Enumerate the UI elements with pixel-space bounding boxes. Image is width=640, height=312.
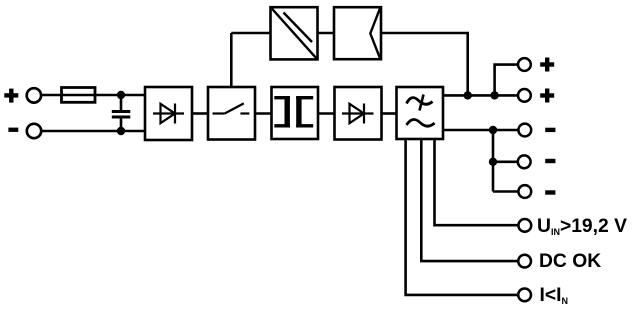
- fuse F1: [62, 88, 96, 103]
- label - input: [8, 128, 18, 132]
- wire minus vertical branch: [492, 130, 495, 192]
- label minus 2: [545, 159, 555, 163]
- rectifier diode box D2: [335, 87, 382, 140]
- wire D1 to switch: [192, 112, 208, 115]
- wire filter to minus terminals: [443, 129, 518, 132]
- wire fuse to rectifier box: [95, 94, 145, 97]
- terminal output plus 2: [518, 89, 531, 102]
- transformer T1: [272, 87, 319, 139]
- wire converter to pwm box: [318, 32, 335, 35]
- switch S1: [208, 87, 255, 140]
- wire input minus to rectifier box: [42, 130, 145, 133]
- terminal signal current limit: [518, 289, 531, 302]
- terminal output minus 1: [518, 124, 531, 137]
- wire to minus terminal 2: [493, 161, 518, 164]
- input protection diode box D1: [145, 87, 192, 140]
- label minus 1: [545, 128, 555, 132]
- svg-text:UIN>19,2 V: UIN>19,2 V: [537, 216, 627, 237]
- terminal output minus 3: [518, 185, 531, 198]
- terminal signal DC OK: [518, 255, 531, 268]
- label plus 1: [540, 58, 554, 72]
- wire filter to current signal: [406, 139, 518, 295]
- output filter box: [397, 87, 444, 139]
- wire D2 to filter: [382, 112, 397, 115]
- label plus 2: [540, 89, 554, 103]
- junction top at capacitor: [117, 91, 125, 99]
- terminal input minus: [27, 124, 41, 138]
- control converter box U1: [271, 7, 318, 59]
- junction plus branch: [490, 91, 498, 99]
- wire switch to control converter (vertical): [230, 33, 233, 87]
- junction bottom at capacitor: [117, 127, 125, 135]
- label + input: [4, 89, 18, 103]
- label minus 3: [545, 190, 555, 194]
- wire branch to first plus terminal: [495, 65, 518, 96]
- svg-text:DC OK: DC OK: [539, 251, 601, 272]
- terminal signal Uin: [518, 219, 531, 232]
- wire input plus to fuse: [42, 94, 62, 97]
- capacitor C1: [112, 95, 131, 131]
- svg-text:I<IN: I<IN: [540, 285, 568, 306]
- wire filter to Uin signal: [435, 139, 518, 225]
- wire switch to transformer: [255, 112, 272, 115]
- junction minus 2: [489, 158, 497, 166]
- pwm controller box U2: [334, 7, 381, 59]
- junction minus branch: [489, 126, 497, 134]
- wire pwm box to output node: [381, 33, 468, 95]
- wire filter to plus terminals: [443, 94, 518, 97]
- terminal output minus 2: [518, 155, 531, 168]
- wire transformer to diode D2: [318, 112, 335, 115]
- terminal output plus 1: [518, 58, 531, 71]
- wire filter to DC OK signal: [421, 139, 517, 261]
- terminal input plus: [27, 88, 41, 102]
- wire to minus terminal 3: [493, 190, 518, 193]
- wire horizontal to converter box: [231, 32, 270, 35]
- junction feedback node: [464, 91, 472, 99]
